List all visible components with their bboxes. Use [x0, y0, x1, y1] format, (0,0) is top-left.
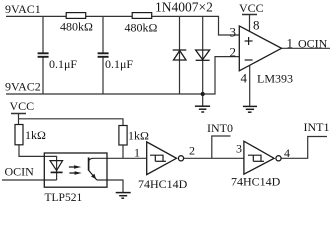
svg-text:VCC: VCC [10, 99, 35, 113]
svg-text:VCC: VCC [239, 1, 264, 15]
svg-text:3: 3 [236, 142, 242, 156]
svg-text:2: 2 [230, 44, 237, 59]
svg-text:74HC14D: 74HC14D [231, 175, 281, 189]
svg-text:0.1μF: 0.1μF [105, 57, 133, 71]
svg-text:480kΩ: 480kΩ [60, 20, 93, 34]
svg-text:480kΩ: 480kΩ [125, 21, 158, 35]
svg-text:INT1: INT1 [304, 120, 330, 134]
svg-text:1N4007×2: 1N4007×2 [155, 0, 213, 15]
svg-text:3: 3 [230, 24, 237, 39]
svg-text:TLP521: TLP521 [45, 192, 83, 204]
svg-text:OCIN: OCIN [298, 37, 328, 51]
svg-text:8: 8 [253, 18, 260, 33]
svg-text:9VAC2: 9VAC2 [5, 80, 41, 94]
svg-text:1kΩ: 1kΩ [25, 128, 46, 142]
svg-text:9VAC1: 9VAC1 [5, 2, 41, 16]
svg-text:LM393: LM393 [257, 72, 293, 86]
svg-text:1: 1 [287, 36, 294, 51]
svg-text:4: 4 [284, 146, 290, 160]
svg-text:1: 1 [134, 146, 140, 160]
svg-text:OCIN: OCIN [5, 164, 35, 178]
svg-text:4: 4 [241, 70, 248, 85]
svg-text:0.1μF: 0.1μF [49, 57, 77, 71]
svg-text:74HC14D: 74HC14D [138, 177, 188, 191]
svg-text:2: 2 [189, 144, 195, 158]
svg-text:1kΩ: 1kΩ [128, 129, 149, 143]
svg-text:INT0: INT0 [207, 121, 233, 135]
